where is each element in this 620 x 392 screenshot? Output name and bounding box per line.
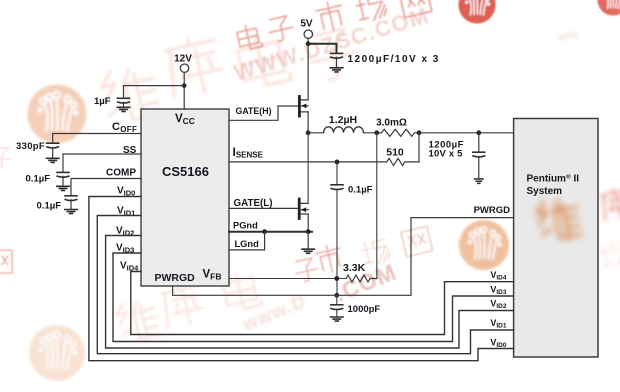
capacitor C6 330pF: [47, 143, 59, 148]
wire GATE(L): [229, 207, 298, 209]
capacitor C5 1000pF: [336, 295, 338, 304]
ground (C3): [475, 179, 483, 183]
ground (1000pF): [331, 317, 343, 321]
Pentium II System box: [514, 119, 598, 358]
node 12V/1uF junction: [182, 83, 187, 88]
ground (COMP cap): [65, 210, 77, 214]
12V terminal: [180, 64, 188, 72]
wire VFB feedback vertical: [376, 133, 378, 279]
node switch: [306, 130, 311, 135]
wire Q1 source to node: [308, 112, 323, 133]
node output cap: [476, 130, 481, 135]
node VFB/0.1uF: [334, 276, 339, 281]
wire VID0: [89, 197, 514, 361]
node 5V branch: [306, 41, 311, 46]
wire to C1: [124, 86, 185, 98]
wire GATE(H): [229, 106, 387, 162]
wire VID3: [113, 253, 514, 342]
capacitor C7 0.1uF: [57, 172, 69, 177]
wire VFB line: [229, 278, 346, 280]
wire 5V down: [307, 38, 309, 100]
pale big ghosts: [99, 27, 362, 343]
wire VID4: [131, 272, 514, 335]
node ISENSE/0.1uF: [335, 160, 340, 165]
wire LGnd: [229, 232, 265, 250]
wire COMP: [71, 179, 141, 196]
wire switch node to Q2 drain: [307, 133, 309, 204]
IC U1 CS5166 body: [141, 109, 229, 286]
inductor L1 1.2uH: [324, 127, 364, 133]
node PWRGD/1000pF: [334, 293, 339, 298]
ground (330pF): [47, 158, 59, 162]
node L1/R1: [374, 130, 379, 135]
wire SS: [63, 154, 141, 172]
resistor R3 3.3K: [346, 275, 377, 282]
node R1 out: [417, 130, 422, 135]
wire PGnd (thick): [229, 231, 312, 233]
transistor Q2 (GATE(L) MOSFET): [298, 199, 301, 219]
resistor R2 510: [387, 158, 419, 165]
ground (C2): [330, 68, 342, 72]
wire COFF: [53, 134, 141, 143]
ground (1uF): [117, 107, 129, 111]
node LGnd/PGnd: [262, 229, 267, 234]
wire VID2: [106, 236, 514, 349]
wire 12V to VCC: [183, 72, 185, 109]
resistor R1 3.0mOhm: [382, 129, 420, 136]
capacitor C8 0.1uF: [65, 196, 77, 201]
wire R1-out down to ISENSE line: [418, 133, 420, 162]
top red char row: [236, 0, 432, 51]
wire VID1: [97, 216, 513, 354]
wire L1 to R1: [364, 132, 382, 134]
capacitor C1 1uF: [118, 98, 130, 103]
node PGnd/Q2: [306, 229, 311, 234]
bottom middle red chars: [0, 148, 433, 283]
capacitor C4 0.1uF: [336, 162, 338, 184]
5V terminal: [304, 30, 312, 38]
wire PGnd to ground: [307, 232, 309, 249]
ground (SS cap): [57, 186, 69, 190]
wire PWRGD route: [173, 218, 514, 296]
transistor Q1 (GATE(H) MOSFET): [298, 97, 301, 117]
orange logo circles: [28, 85, 87, 144]
top red logo circles: [459, 0, 496, 24]
capacitor C3 1200uF 10V x 5: [478, 133, 480, 152]
wire Q2 source to PGnd: [307, 214, 309, 232]
wire 5V branch to C2: [308, 44, 336, 53]
capacitor C2 1200uF/10V x 3: [331, 53, 343, 58]
ground (PGnd): [302, 249, 314, 253]
wire output to Pentium: [419, 132, 514, 134]
